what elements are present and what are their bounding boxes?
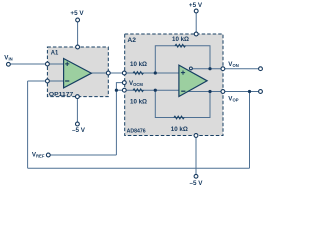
wire VREF riser [115, 90, 117, 155]
wire VIN to A1 + input [10, 63, 63, 65]
op-amp U1 (A1 triangle) [64, 59, 92, 88]
svg-text:+5 V: +5 V [189, 2, 203, 9]
resistor R2 10k (A2 row2 input) [133, 89, 143, 92]
wire bottom feedback run [28, 167, 250, 169]
wire A1 - input from feedback [28, 80, 64, 82]
terminal A1 box bottom [76, 95, 80, 99]
terminal -5V A2 [194, 174, 198, 178]
junction dot VON feedback [208, 67, 211, 70]
terminal A2 VOCM edge [122, 81, 126, 85]
U1 plus sign [65, 62, 69, 66]
terminal A2 row1 edge [122, 71, 126, 75]
terminal VREF [46, 153, 50, 157]
terminal +5V A1 [76, 18, 80, 22]
wire VON output [192, 68, 258, 70]
terminal A1 output edge [106, 71, 110, 75]
terminal A2 VOP edge [221, 90, 225, 94]
svg-text:VIN: VIN [4, 54, 12, 61]
terminal A2 box bottom [194, 134, 198, 138]
svg-text:A2: A2 [127, 37, 136, 44]
U2 minus sign [181, 90, 185, 92]
svg-text:VOP: VOP [228, 96, 238, 103]
wire bottom feedback [155, 90, 210, 117]
svg-text:10 kΩ: 10 kΩ [171, 127, 188, 133]
terminal VOP external [259, 90, 263, 94]
junction dot VOP feedback [208, 90, 211, 93]
terminal -5V A1 [76, 122, 80, 126]
terminal A1 box top [76, 45, 80, 49]
wire right riser to VOP [249, 92, 251, 169]
terminal +5V A2 [194, 9, 198, 13]
wire top feedback [155, 46, 210, 73]
wire A1 feedback riser left [27, 81, 29, 168]
wire +5V supply A1 [77, 22, 79, 47]
junction dot VOP riser [248, 90, 251, 93]
wire VOP output [188, 91, 259, 93]
terminal VON external [259, 67, 263, 71]
wire A1 output to A2 input [91, 72, 133, 74]
A1 block (OP1177) [47, 47, 108, 97]
junction dot row1 [154, 71, 157, 74]
wire -5V supply A1 [76, 97, 78, 122]
wire -5V supply A2 [195, 136, 197, 175]
svg-text:VREF: VREF [32, 151, 45, 158]
A2 block (AD8476) [125, 34, 223, 136]
terminal A1 +in edge [46, 62, 50, 66]
terminal A2 VON edge [221, 67, 225, 71]
svg-text:10 kΩ: 10 kΩ [130, 100, 147, 106]
junction dot row2 [154, 89, 157, 92]
resistor R1 10k (A2 row1 input) [133, 72, 143, 75]
wire VREF run [50, 154, 116, 156]
svg-text:+5 V: +5 V [70, 10, 84, 17]
terminal A2 box top [194, 32, 198, 36]
op-amp U2 (A2 triangle) [179, 65, 207, 96]
junction dot VOCM [115, 89, 118, 92]
terminal A2 row2 edge [122, 88, 126, 92]
wire VOCM junction to row2 terminal [116, 89, 123, 91]
resistor R4 10k (bottom feedback) [174, 116, 184, 119]
svg-text:A1: A1 [51, 50, 59, 57]
wire VOCM bend [116, 83, 122, 91]
terminal A1 -in edge [46, 79, 50, 83]
wire +5V supply A2 [195, 13, 197, 34]
wire A2 row2 [127, 89, 179, 91]
svg-text:VON: VON [228, 61, 238, 68]
U2 inverted output bubble [190, 67, 193, 70]
resistor R3 10k (top feedback) [175, 44, 185, 47]
svg-text:–5 V: –5 V [72, 127, 86, 134]
svg-text:10 kΩ: 10 kΩ [130, 62, 147, 68]
svg-text:AD8476: AD8476 [127, 129, 146, 135]
U1 minus sign [65, 80, 69, 82]
U2 plus sign [181, 71, 185, 75]
svg-text:OP1177: OP1177 [49, 92, 73, 98]
svg-text:–5 V: –5 V [190, 180, 204, 187]
wire A2 row1 [127, 72, 179, 74]
svg-text:10 kΩ: 10 kΩ [172, 37, 189, 43]
terminal VIN [6, 62, 10, 66]
